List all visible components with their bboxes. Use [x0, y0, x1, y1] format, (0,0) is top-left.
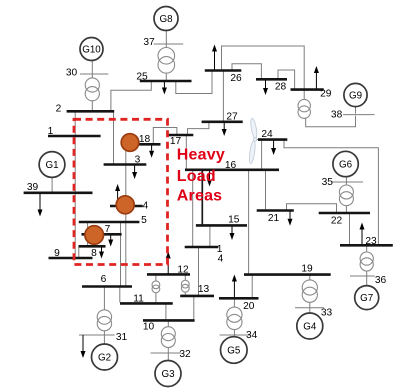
svg-text:G10: G10	[82, 45, 101, 56]
svg-text:24: 24	[261, 129, 273, 140]
svg-text:34: 34	[246, 330, 258, 341]
svg-text:12: 12	[177, 264, 189, 275]
svg-text:8: 8	[91, 248, 97, 259]
svg-text:G5: G5	[227, 346, 241, 357]
svg-text:G4: G4	[303, 322, 317, 333]
svg-text:G8: G8	[159, 14, 173, 25]
svg-text:20: 20	[243, 301, 255, 312]
svg-text:1: 1	[48, 126, 54, 137]
svg-text:30: 30	[66, 67, 78, 78]
svg-text:37: 37	[143, 37, 155, 48]
svg-text:G7: G7	[360, 293, 373, 304]
svg-text:33: 33	[321, 308, 333, 319]
svg-text:27: 27	[226, 112, 238, 123]
svg-text:6: 6	[101, 274, 107, 285]
svg-text:G2: G2	[98, 353, 111, 364]
svg-text:4: 4	[142, 201, 148, 212]
svg-text:G9: G9	[349, 91, 362, 102]
svg-text:19: 19	[301, 264, 313, 275]
svg-text:4: 4	[218, 254, 224, 265]
svg-text:39: 39	[27, 182, 39, 193]
svg-text:3: 3	[135, 155, 141, 166]
svg-text:21: 21	[268, 213, 280, 224]
svg-text:28: 28	[275, 81, 287, 92]
svg-text:10: 10	[143, 322, 155, 333]
svg-text:25: 25	[136, 71, 148, 82]
svg-text:7: 7	[105, 224, 111, 235]
svg-text:16: 16	[225, 160, 237, 171]
svg-text:38: 38	[331, 110, 343, 121]
svg-text:22: 22	[331, 215, 343, 226]
svg-text:Heavy: Heavy	[177, 147, 225, 164]
svg-text:36: 36	[375, 275, 387, 286]
svg-text:G6: G6	[339, 160, 353, 171]
svg-text:11: 11	[133, 293, 144, 304]
svg-text:15: 15	[228, 214, 240, 225]
svg-text:G1: G1	[45, 160, 58, 171]
svg-text:23: 23	[365, 236, 377, 247]
svg-text:2: 2	[56, 104, 62, 115]
svg-text:G3: G3	[161, 369, 175, 380]
svg-text:31: 31	[116, 332, 128, 343]
svg-text:26: 26	[230, 73, 242, 84]
svg-text:18: 18	[139, 134, 151, 145]
svg-text:Load: Load	[177, 168, 216, 185]
svg-text:32: 32	[179, 349, 191, 360]
svg-text:9: 9	[54, 248, 60, 259]
svg-text:35: 35	[322, 177, 334, 188]
svg-text:13: 13	[198, 284, 210, 295]
svg-text:5: 5	[141, 215, 147, 226]
svg-text:Areas: Areas	[177, 188, 222, 205]
svg-text:29: 29	[320, 88, 332, 99]
svg-text:17: 17	[170, 136, 182, 147]
